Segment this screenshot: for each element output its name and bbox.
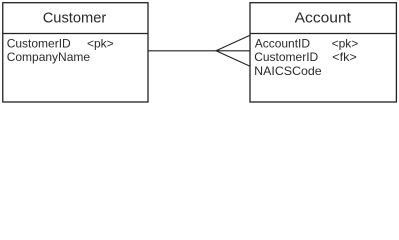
relationship wire Customer to Account	[148, 50, 216, 52]
svg-text:<fk>: <fk>	[332, 50, 357, 64]
svg-text:CompanyName: CompanyName	[7, 50, 91, 64]
svg-text:<pk>: <pk>	[332, 36, 359, 50]
entity Account header separator	[250, 33, 396, 35]
svg-text:CustomerID: CustomerID	[7, 36, 71, 50]
entity Account box	[250, 3, 396, 102]
svg-text:NAICSCode: NAICSCode	[254, 64, 322, 78]
entity Customer box	[3, 3, 148, 102]
svg-text:Customer: Customer	[43, 9, 107, 26]
svg-text:AccountID: AccountID	[255, 36, 311, 50]
entity Customer header separator	[3, 33, 148, 35]
svg-text:CustomerID: CustomerID	[254, 50, 318, 64]
svg-text:Account: Account	[295, 9, 352, 26]
svg-text:<pk>: <pk>	[87, 36, 114, 50]
crow's foot many-end	[216, 35, 250, 66]
